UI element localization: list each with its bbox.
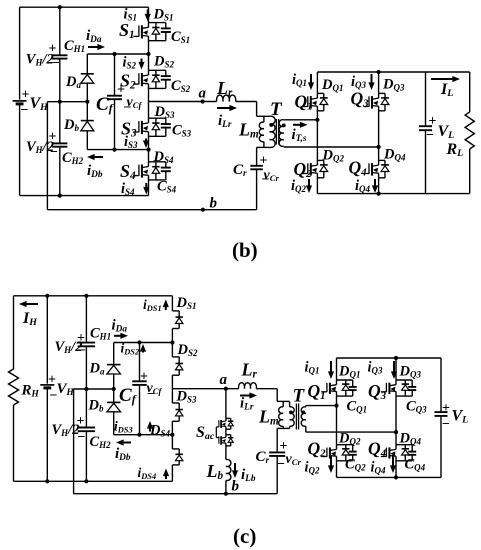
svg-text:Sac: Sac — [196, 424, 215, 442]
svg-text:iQ2: iQ2 — [305, 460, 321, 476]
svg-text:iQ4: iQ4 — [371, 460, 387, 476]
svg-text:DQ4: DQ4 — [383, 147, 406, 163]
svg-text:(c): (c) — [233, 524, 256, 548]
svg-text:−: − — [147, 387, 155, 402]
svg-text:+: + — [442, 401, 450, 416]
svg-text:iDa: iDa — [86, 28, 102, 45]
svg-text:DS4: DS4 — [149, 423, 170, 439]
svg-text:CH1: CH1 — [90, 326, 111, 342]
svg-text:RH: RH — [21, 383, 40, 400]
svg-text:iLr: iLr — [240, 396, 254, 413]
svg-text:CQ1: CQ1 — [347, 399, 368, 415]
svg-text:Da: Da — [65, 74, 81, 90]
svg-text:Lr: Lr — [216, 78, 233, 99]
svg-text:+: + — [260, 154, 268, 169]
svg-text:Cr: Cr — [256, 449, 270, 466]
svg-text:Q3: Q3 — [351, 89, 370, 110]
svg-text:CQ2: CQ2 — [345, 457, 366, 473]
svg-text:CS2: CS2 — [171, 78, 191, 94]
svg-text:iLr: iLr — [218, 113, 232, 130]
svg-text:Q2: Q2 — [294, 159, 313, 180]
svg-text:vCr: vCr — [286, 452, 302, 467]
svg-text:S2: S2 — [120, 71, 136, 92]
svg-text:Q1: Q1 — [295, 92, 313, 113]
svg-text:DQ2: DQ2 — [322, 148, 345, 164]
svg-text:+: + — [77, 414, 85, 429]
svg-text:iDa: iDa — [112, 318, 128, 335]
svg-text:T: T — [293, 386, 306, 407]
svg-text:DS1: DS1 — [153, 7, 174, 23]
svg-text:Cf: Cf — [96, 94, 114, 115]
svg-text:−: − — [426, 128, 434, 143]
svg-text:iQ1: iQ1 — [292, 72, 307, 88]
svg-text:(b): (b) — [232, 238, 258, 262]
svg-text:+: + — [429, 114, 437, 129]
svg-text:DS2: DS2 — [153, 54, 174, 70]
svg-text:−: − — [50, 145, 58, 160]
svg-text:iDS3: iDS3 — [114, 419, 133, 435]
svg-text:iS4: iS4 — [121, 181, 135, 197]
svg-text:iDS4: iDS4 — [138, 465, 157, 481]
svg-text:DQ4: DQ4 — [399, 431, 422, 447]
svg-text:Q3: Q3 — [368, 381, 387, 402]
svg-text:CS3: CS3 — [172, 123, 192, 139]
svg-text:Q4: Q4 — [368, 439, 387, 460]
svg-text:DS3: DS3 — [154, 104, 175, 120]
svg-text:DS1: DS1 — [176, 295, 197, 311]
svg-text:Db: Db — [63, 117, 79, 133]
svg-text:DS3: DS3 — [176, 389, 197, 405]
svg-text:VH/2: VH/2 — [52, 422, 80, 438]
svg-text:S1: S1 — [119, 20, 135, 41]
svg-text:CH1: CH1 — [64, 38, 85, 54]
svg-text:iDb: iDb — [115, 446, 131, 463]
svg-text:Lm: Lm — [238, 120, 259, 141]
svg-text:DQ1: DQ1 — [321, 77, 343, 93]
svg-text:iDb: iDb — [87, 163, 103, 180]
svg-text:DQ1: DQ1 — [338, 364, 360, 380]
svg-text:+: + — [49, 130, 57, 145]
svg-text:iT,s: iT,s — [292, 127, 307, 144]
svg-text:VH: VH — [30, 95, 49, 113]
svg-text:+: + — [22, 88, 30, 103]
svg-text:RL: RL — [446, 141, 464, 159]
svg-text:CQ4: CQ4 — [405, 457, 426, 473]
svg-text:b: b — [232, 479, 240, 495]
svg-text:−: − — [21, 103, 29, 118]
svg-text:−: − — [78, 344, 86, 359]
svg-text:a: a — [199, 86, 207, 102]
svg-text:Lb: Lb — [206, 461, 224, 482]
svg-text:iLb: iLb — [241, 467, 256, 484]
svg-text:−: − — [262, 173, 270, 188]
svg-text:+: + — [49, 42, 57, 57]
svg-text:CQ3: CQ3 — [406, 399, 427, 415]
svg-text:VH: VH — [57, 381, 75, 398]
svg-text:DQ3: DQ3 — [382, 77, 405, 93]
svg-text:Da: Da — [89, 361, 105, 377]
svg-text:−: − — [124, 101, 132, 116]
svg-text:DQ2: DQ2 — [338, 431, 361, 447]
svg-text:Q1: Q1 — [308, 381, 326, 402]
svg-text:−: − — [442, 417, 450, 432]
svg-text:Cf: Cf — [119, 385, 137, 406]
svg-text:S4: S4 — [120, 161, 136, 182]
svg-text:Q2: Q2 — [308, 439, 327, 460]
svg-text:Lm: Lm — [258, 407, 279, 428]
svg-text:DS4: DS4 — [153, 149, 174, 165]
svg-text:iDS1: iDS1 — [143, 297, 162, 313]
svg-text:iQ4: iQ4 — [355, 178, 371, 194]
svg-text:DS2: DS2 — [177, 342, 198, 358]
svg-text:CH2: CH2 — [62, 150, 84, 166]
svg-text:iQ1: iQ1 — [305, 360, 320, 376]
svg-text:−: − — [50, 389, 58, 404]
svg-text:iQ2: iQ2 — [291, 178, 307, 194]
svg-text:a: a — [220, 372, 228, 388]
svg-text:b: b — [210, 196, 218, 212]
svg-text:iS2: iS2 — [123, 55, 137, 71]
svg-text:CS4: CS4 — [157, 179, 177, 195]
svg-text:VL: VL — [438, 123, 455, 141]
svg-text:IL: IL — [440, 81, 453, 99]
svg-text:DQ3: DQ3 — [399, 364, 422, 380]
svg-text:iS1: iS1 — [124, 7, 138, 23]
svg-text:Lr: Lr — [241, 360, 258, 381]
svg-text:−: − — [277, 457, 285, 472]
svg-text:VL: VL — [452, 408, 469, 426]
svg-text:Db: Db — [88, 398, 104, 414]
svg-text:IH: IH — [22, 310, 37, 328]
svg-text:CS1: CS1 — [171, 29, 190, 45]
svg-text:iQ3: iQ3 — [368, 360, 384, 376]
svg-text:−: − — [52, 56, 60, 71]
svg-text:−: − — [78, 430, 86, 445]
svg-text:CH2: CH2 — [90, 434, 112, 450]
svg-text:+: + — [48, 373, 56, 388]
svg-text:Q4: Q4 — [349, 158, 368, 179]
svg-text:T: T — [270, 99, 283, 120]
svg-text:Cr: Cr — [233, 162, 247, 179]
